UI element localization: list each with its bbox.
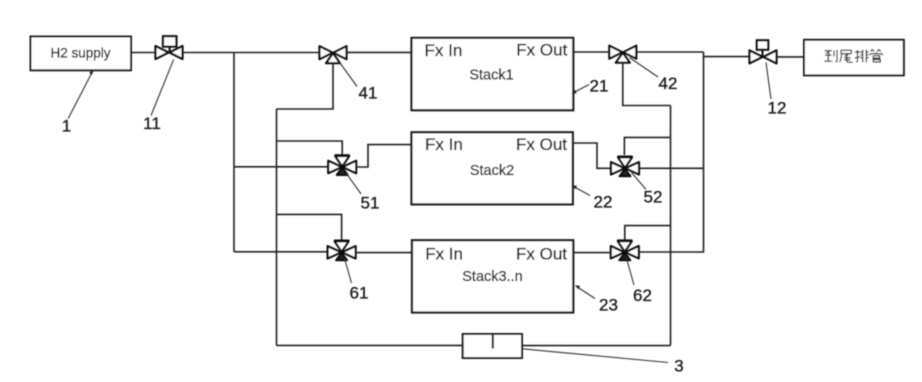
svg-text:Fx In: Fx In [425, 245, 463, 264]
wire valve 61 to Stack3 [356, 252, 412, 254]
tail pipe box label char 4 (guan) [870, 49, 882, 62]
leader line 3 [523, 349, 669, 363]
svg-text:1: 1 [62, 117, 71, 136]
valve 11 [156, 36, 183, 59]
leader line 11 [151, 60, 174, 116]
wire collector right vertical [703, 57, 705, 252]
leader line 41 [339, 62, 357, 87]
wire branch to valve 51 left [234, 166, 328, 168]
wire branch to valve 61 left [234, 251, 328, 253]
wire Stack2 out to valve 52 [573, 143, 611, 168]
leader line 22 [572, 185, 590, 195]
wire feed to valve 61 top [277, 214, 342, 240]
valve 51 [328, 156, 356, 176]
leader line 12 [766, 63, 771, 100]
wire bottom purge line left [277, 344, 463, 346]
wire supply branch vertical [233, 53, 235, 252]
svg-text:12: 12 [768, 98, 787, 117]
svg-text:H2 supply: H2 supply [50, 46, 110, 61]
svg-text:Stack2: Stack2 [470, 163, 514, 179]
svg-text:Stack3..n: Stack3..n [462, 269, 522, 285]
wire valve 52 to right vertical [639, 167, 704, 169]
wire valve 42 bottom loop [623, 62, 671, 105]
svg-text:3: 3 [674, 357, 683, 376]
leader line 23 [575, 285, 595, 298]
wire feed to valve 51 top [277, 141, 343, 155]
svg-text:61: 61 [350, 284, 369, 303]
wire valve 12 to tail pipe box [777, 56, 805, 58]
wire bottom purge line right [522, 345, 671, 347]
tail pipe box label char 3 (pai) [855, 50, 869, 62]
wire jog down at junction [704, 52, 751, 57]
tail pipe box label char 2 (wei) [840, 50, 853, 62]
wire valve 41 to Stack1 [347, 51, 412, 53]
svg-text:52: 52 [644, 188, 663, 207]
svg-text:22: 22 [594, 193, 613, 212]
valve 52 [611, 157, 639, 177]
leader line 51 [347, 174, 362, 195]
svg-text:Fx Out: Fx Out [516, 135, 567, 154]
leader line 62 [627, 259, 635, 286]
wire purge left vertical [276, 109, 278, 345]
wire valve 62 to right vertical [639, 251, 704, 253]
wire H2 supply to valve 11 [131, 52, 156, 54]
leader line 52 [632, 173, 647, 190]
tail pipe box [804, 40, 904, 76]
Stack3 box [412, 240, 573, 312]
wire feed to valve 52 top [624, 137, 670, 155]
valve 42 [609, 46, 636, 63]
wire valve 41 bottom loop [277, 63, 334, 109]
valve 61 [328, 241, 356, 260]
leader line 42 [630, 58, 659, 78]
flow meter 3 [463, 334, 522, 358]
wire valve 51 to Stack2 [356, 145, 411, 167]
svg-text:Stack1: Stack1 [469, 67, 513, 83]
wire Stack3 out to valve 62 [573, 252, 611, 254]
svg-text:41: 41 [359, 83, 378, 102]
svg-text:42: 42 [659, 74, 678, 93]
leader line 21 [572, 85, 590, 94]
wire Stack1 out to valve 42 [573, 51, 610, 53]
svg-text:11: 11 [143, 114, 161, 133]
svg-text:23: 23 [599, 296, 618, 315]
tail pipe box label char 1 (dao) [824, 50, 837, 62]
svg-text:Fx Out: Fx Out [516, 244, 567, 263]
Stack1 box [412, 38, 574, 110]
valve 62 [611, 241, 639, 261]
svg-text:Fx Out: Fx Out [516, 41, 567, 60]
svg-text:51: 51 [361, 193, 380, 212]
Stack2 box [412, 132, 573, 204]
svg-text:62: 62 [633, 286, 652, 305]
leader line 1 [68, 70, 94, 118]
wire valve 11 to valve 41 [183, 52, 321, 54]
svg-text:21: 21 [590, 76, 609, 95]
wire purge right vertical [670, 106, 672, 346]
svg-text:Fx In: Fx In [425, 135, 463, 154]
wire valve 42 to junction [636, 51, 704, 53]
svg-text:Fx In: Fx In [425, 41, 463, 60]
valve 41 [320, 46, 347, 63]
leader line 61 [345, 259, 352, 284]
valve 12 [750, 40, 777, 63]
wire feed to valve 62 top [625, 226, 671, 241]
H2 supply box [31, 37, 132, 71]
